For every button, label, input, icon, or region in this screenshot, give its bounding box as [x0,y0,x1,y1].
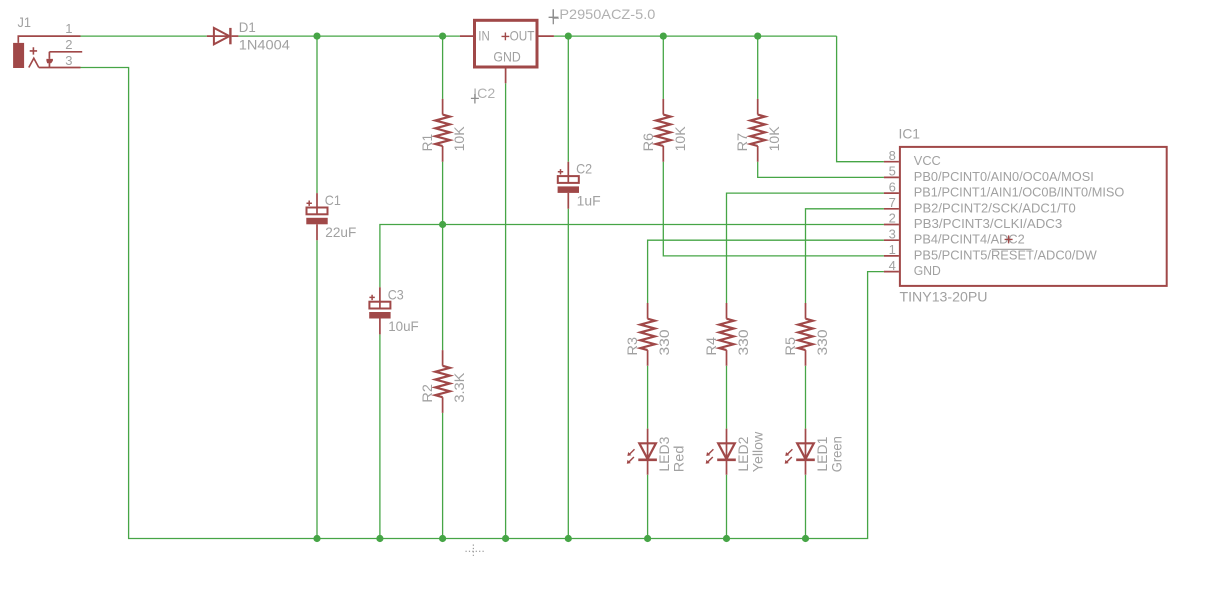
svg-text:10uF: 10uF [388,318,419,334]
diode D1 1N4004 [207,19,290,53]
svg-text:PB5/PCINT5/RESET/ADC0/DW: PB5/PCINT5/RESET/ADC0/DW [914,248,1097,262]
junction on ground rail [723,535,730,542]
svg-text:8: 8 [889,148,896,163]
svg-text:Red: Red [671,446,687,473]
svg-text:IC1: IC1 [899,125,921,141]
resistor R4 (330) [703,303,751,366]
svg-text:10K: 10K [766,126,782,152]
svg-text:LED2: LED2 [735,436,751,471]
wire LED2 to ground rail [726,475,728,539]
junction on ground rail [802,535,809,542]
connector J1 (DC power jack) [13,14,82,68]
svg-text:VCC: VCC [914,154,941,168]
wire ground net J1.3 to IC1 GND pin 4 [81,68,884,539]
svg-text:GND: GND [914,264,941,278]
wire C3 bottom to ground rail [379,334,381,538]
wire C1 bottom to ground rail [316,240,318,538]
LED LED3 (Red) [627,429,687,475]
svg-text:D1: D1 [239,19,256,35]
capacitor C3 (10uF) [369,286,419,334]
svg-text:TINY13-20PU: TINY13-20PU [900,289,988,305]
wire R4 bottom to LED2 [726,366,728,429]
wire regulator GND to ground rail [505,83,507,538]
wire R6 bottom to IC1 pin 1 [663,162,884,256]
svg-text:PB0/PCINT0/AIN0/OC0A/MOSI: PB0/PCINT0/AIN0/OC0A/MOSI [914,170,1094,184]
svg-text:OUT: OUT [510,27,535,43]
wire IC1 pin 7 to R5 top [806,209,884,303]
wire rail to C2 top [567,36,569,162]
junction on 5V/input rail [660,33,667,40]
wire rail to C1 top [316,36,318,193]
svg-text:R2: R2 [419,384,435,403]
svg-text:LED3: LED3 [656,436,672,471]
wire IC1 pin 6 to R4 top [727,193,884,303]
voltage regulator IC2 LP2950ACZ-5.0 [460,6,656,103]
junction on 5V/input rail [313,33,320,40]
resistor R1 (10K) [419,99,467,162]
svg-text:Yellow: Yellow [750,431,766,472]
svg-text:10K: 10K [672,126,688,152]
origin cross marker [466,545,485,557]
svg-text:GND: GND [493,48,520,64]
svg-text:1: 1 [889,242,896,257]
junction R1/R2/C3/pin2 node [439,221,446,228]
resistor R2 (3.3K) [419,350,467,413]
wire LED1 to ground rail [805,475,807,539]
svg-text:1N4004: 1N4004 [239,37,290,53]
LED LED1 (Green) [785,429,845,475]
junction on ground rail [313,535,320,542]
svg-text:3.3K: 3.3K [451,372,467,403]
wire rail to R1 top [442,36,444,99]
svg-text:J1: J1 [18,14,32,30]
svg-text:3: 3 [65,53,72,68]
svg-text:R7: R7 [734,133,750,152]
svg-text:2: 2 [65,37,72,52]
svg-text:6: 6 [889,179,896,194]
wire R3 bottom to LED3 [647,366,649,429]
junction on 5V/input rail [439,33,446,40]
wire J1.1 to D1 anode [81,35,207,37]
svg-text:1: 1 [65,21,72,36]
svg-text:C3: C3 [388,286,404,302]
resistor R6 (10K) [640,99,688,162]
svg-text:330: 330 [735,329,751,355]
resistor R7 (10K) [734,99,782,162]
wire IC1 pin 3 to R3 top [648,240,884,303]
svg-text:2: 2 [889,211,896,226]
wire LED3 to ground rail [647,475,649,539]
wire rail to R6 top [662,36,664,99]
svg-text:22uF: 22uF [325,224,356,240]
capacitor C1 (22uF) [306,192,356,240]
svg-text:R4: R4 [703,337,719,356]
svg-text:R5: R5 [782,337,798,356]
svg-text:PB2/PCINT2/SCK/ADC1/T0: PB2/PCINT2/SCK/ADC1/T0 [914,201,1076,215]
svg-text:R1: R1 [419,134,435,152]
svg-text:R6: R6 [640,133,656,152]
svg-text:7: 7 [889,195,896,210]
junction on ground rail [439,535,446,542]
resistor R3 (330) [624,303,672,366]
wire R1 bottom to R2 top [442,162,444,350]
junction on ground rail [502,535,509,542]
junction on ground rail [565,535,572,542]
wire R7 bottom to IC1 pin 5 [758,162,884,178]
wire 5V to IC1 VCC pin 8 [837,36,884,162]
svg-text:LP2950ACZ-5.0: LP2950ACZ-5.0 [551,6,655,22]
svg-text:LED1: LED1 [814,436,830,471]
IC U1/IC1 ATtiny13 (TINY13-20PU) [884,125,1167,304]
junction on 5V/input rail [754,33,761,40]
svg-text:PB3/PCINT3/CLKI/ADC3: PB3/PCINT3/CLKI/ADC3 [914,217,1063,231]
junction on 5V/input rail [565,33,572,40]
svg-text:PB1/PCINT1/AIN1/OC0B/INT0/MISO: PB1/PCINT1/AIN1/OC0B/INT0/MISO [914,186,1125,200]
wire R2 bottom to ground rail [442,413,444,539]
svg-text:C2: C2 [576,161,592,177]
svg-text:C1: C1 [325,192,341,208]
capacitor C2 (1uF) [558,161,601,209]
junction on ground rail [376,535,383,542]
svg-text:330: 330 [814,329,830,355]
wire rail to R7 top [757,36,759,99]
svg-text:3: 3 [889,226,896,241]
svg-text:Green: Green [829,436,845,472]
wire C2 bottom to ground rail [567,209,569,539]
svg-text:5: 5 [889,164,896,179]
wire IC1 pin 2 to R1/R2 node and C3 top [380,225,884,288]
wire regulator OUT 5V rail [554,35,837,37]
svg-text:1uF: 1uF [577,193,601,209]
svg-text:330: 330 [656,329,672,355]
wire R5 bottom to LED1 [805,366,807,429]
wire D1 cathode to regulator IN [238,35,460,37]
resistor R5 (330) [782,303,830,366]
LED LED2 (Yellow) [706,429,766,475]
svg-text:IN: IN [478,27,490,43]
junction on ground rail [644,535,651,542]
svg-text:10K: 10K [451,126,467,152]
svg-text:4: 4 [889,258,896,273]
svg-text:R3: R3 [624,337,640,356]
